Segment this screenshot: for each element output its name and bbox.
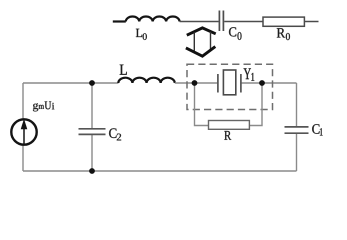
wire: left branch <box>22 83 24 171</box>
resistor R <box>209 121 250 130</box>
node C junction dot <box>259 80 265 86</box>
wire <box>180 21 219 23</box>
capacitor C1 <box>285 127 309 133</box>
capacitor C2 <box>79 129 106 135</box>
label C2: C <box>109 128 116 138</box>
crystal Y1 <box>218 70 241 95</box>
label C2: subscript 2 <box>117 134 121 141</box>
node B junction dot <box>192 80 198 86</box>
label C0: subscript 0 <box>238 32 242 40</box>
label C1: subscript 1 <box>320 128 323 135</box>
current source gmUi <box>11 119 36 145</box>
wire: bottom rail <box>23 170 297 172</box>
inductor L <box>118 78 174 83</box>
label gmUi: U <box>45 102 52 110</box>
wire: right branch upper <box>296 83 298 126</box>
wire: top rail left <box>23 82 118 84</box>
wire: C2 branch lower <box>91 135 93 171</box>
node D junction dot <box>89 168 95 174</box>
label Y1: subscript 1 <box>251 73 254 81</box>
label L <box>120 65 127 75</box>
wire <box>305 21 319 23</box>
label gmUi: subscript m <box>39 105 44 109</box>
label Y1: Y <box>244 68 251 79</box>
wire <box>113 20 126 22</box>
wire: R branch left <box>195 83 209 126</box>
dashed box <box>187 64 273 109</box>
label C1: C <box>312 124 319 134</box>
wire: right branch lower <box>296 134 298 171</box>
label L0: L <box>136 29 142 37</box>
node A junction dot <box>89 80 95 86</box>
wire: top rail right <box>242 82 297 84</box>
wire: C2 branch upper <box>91 83 93 128</box>
wire <box>224 21 262 23</box>
wire: R branch right <box>250 83 262 126</box>
label gmUi: g <box>33 103 38 111</box>
inductor L0 <box>126 17 180 22</box>
label gmUi: subscript i <box>52 103 54 110</box>
capacitor C0 <box>219 11 223 32</box>
equivalence double-arrow symbol <box>186 28 216 56</box>
label C0: C <box>229 27 236 36</box>
label R0: R <box>277 28 285 37</box>
resistor R0 <box>263 17 304 26</box>
wire: top rail mid <box>175 82 217 84</box>
label R <box>224 131 231 140</box>
label R0: subscript 0 <box>286 33 290 40</box>
label L0: subscript 0 <box>143 33 147 40</box>
